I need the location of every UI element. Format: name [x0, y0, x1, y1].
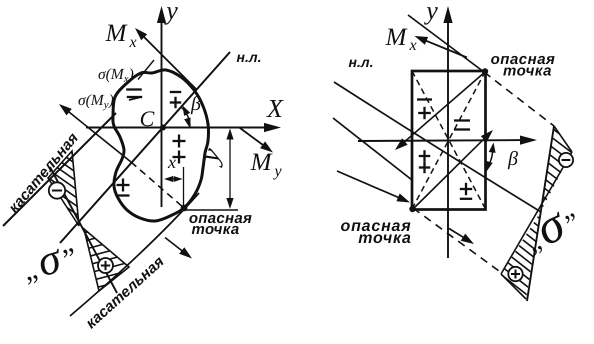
svg-text:точка: точка	[358, 230, 412, 247]
svg-text:н.л.: н.л.	[237, 49, 262, 65]
svg-text:у: у	[423, 0, 438, 25]
svg-text:σ(My): σ(My)	[78, 92, 114, 111]
svg-text:M: M	[250, 149, 273, 176]
svg-text:M: M	[385, 24, 408, 51]
svg-text:x: x	[408, 37, 416, 54]
svg-text:M: M	[105, 20, 128, 47]
svg-text:β: β	[507, 148, 518, 170]
svg-text:σ(Mx): σ(Mx)	[98, 66, 134, 85]
svg-text:точка: точка	[503, 63, 552, 80]
svg-text:X: X	[266, 94, 284, 123]
svg-text:у: у	[163, 0, 178, 25]
svg-text:н.л.: н.л.	[349, 54, 374, 70]
svg-text:y: y	[272, 163, 282, 180]
svg-text:C: C	[140, 106, 155, 131]
svg-text:β: β	[190, 93, 201, 115]
svg-text:точка: точка	[192, 221, 240, 238]
svg-text:x: x	[128, 34, 136, 51]
svg-text:x: x	[167, 152, 176, 172]
